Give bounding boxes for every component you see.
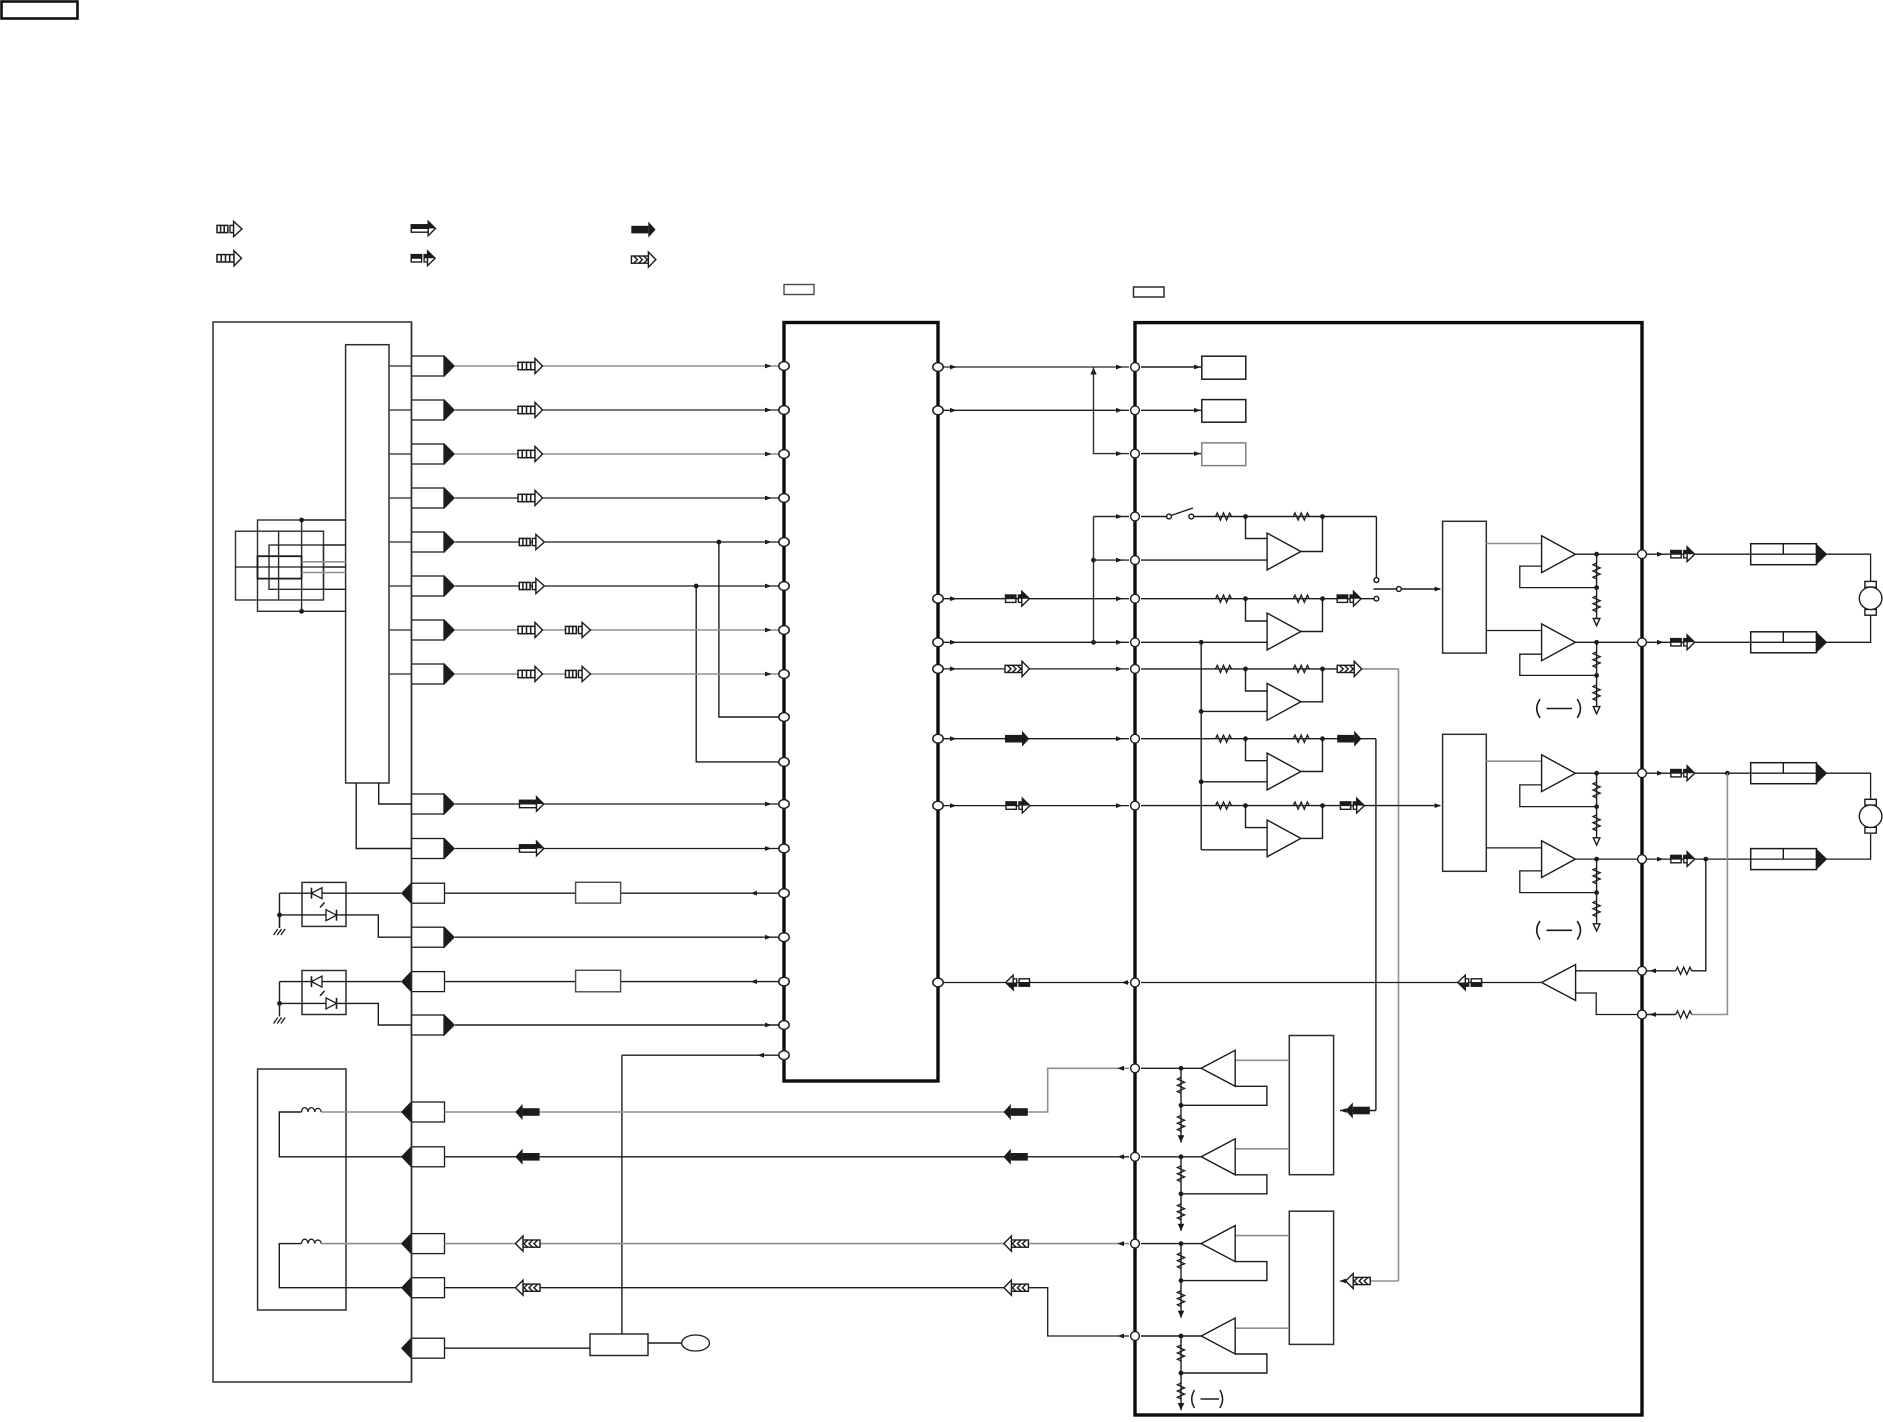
- pin in switch: [401, 1337, 445, 1359]
- pin out row10: [412, 838, 456, 860]
- volume pot 2: [1751, 632, 1828, 653]
- node stageA n2: [1320, 514, 1325, 519]
- wire rect4 to ampC: [1235, 1235, 1289, 1237]
- wire diode1 top: [280, 892, 402, 894]
- wire IC out r2: [943, 409, 1129, 411]
- arrowhead row3: [765, 452, 772, 457]
- wire stageC opamp input: [1246, 669, 1268, 691]
- arrow drive1 plus b: [515, 1104, 539, 1120]
- divider2 res a: [1593, 652, 1600, 668]
- servo block 4: [1289, 1211, 1333, 1344]
- arrowhead servo out: [757, 1053, 764, 1058]
- gray rail down: [1398, 669, 1400, 1281]
- IC pin R8: [933, 978, 943, 987]
- right block pin L6: [1131, 594, 1140, 603]
- wire row8 to IC: [455, 673, 779, 675]
- wire drv1 out2: [1486, 630, 1541, 632]
- arrow row5: [519, 534, 544, 549]
- arrowhead vol b: [1116, 596, 1123, 601]
- arrowhead laser row: [750, 891, 757, 896]
- arrow row4: [518, 490, 543, 505]
- resistor stageD r1: [1216, 735, 1232, 742]
- wire IC out blk: [943, 738, 1129, 740]
- arrow row8 a: [518, 666, 543, 681]
- wire monitor row: [455, 936, 779, 938]
- arrowhead drive1 plus: [1117, 1066, 1124, 1071]
- right block pin L10: [1131, 801, 1140, 810]
- right block pin R3: [1638, 769, 1647, 778]
- pickup mid wire: [236, 566, 324, 568]
- wire stageA drop: [1375, 517, 1377, 578]
- wire stageE opamp input: [1246, 806, 1268, 828]
- arrow row3: [518, 446, 543, 461]
- IC pin L7: [779, 626, 789, 635]
- divider4 line: [1596, 859, 1598, 924]
- indicator box 2: [1202, 400, 1246, 423]
- IC pin L12: [779, 844, 789, 853]
- arrowhead row1: [765, 364, 772, 369]
- pickup rect right: [269, 545, 324, 589]
- wire black rail to rect3: [1340, 1110, 1376, 1112]
- resistor stageE r1: [1216, 802, 1232, 809]
- wire stageA in: [1141, 516, 1167, 518]
- arrow drive2 plus: [1004, 1236, 1029, 1251]
- IC pin L5: [779, 538, 789, 547]
- wire chainB feedback: [1181, 1175, 1267, 1194]
- wire pickup 4: [324, 566, 346, 568]
- IC pin L2: [779, 406, 789, 415]
- right block pin L8: [1131, 665, 1140, 674]
- motor coil box: [258, 1069, 346, 1310]
- node ref branch: [1091, 640, 1096, 645]
- IC pin R7: [933, 801, 943, 810]
- bias rail: [1200, 642, 1202, 850]
- switch sensor box: [590, 1334, 648, 1356]
- wire out amp1 feedback: [1520, 566, 1597, 588]
- arrowhead row6: [765, 584, 772, 589]
- wire servo drop: [621, 1055, 623, 1334]
- divider3 res a: [1593, 782, 1600, 798]
- chainD arrow: [1178, 1403, 1185, 1410]
- arrow drive2 minus: [1004, 1280, 1029, 1295]
- wire sensor to bulb: [648, 1342, 682, 1344]
- wire servo out row: [622, 1054, 779, 1056]
- divider4 res b: [1593, 901, 1600, 917]
- arrow headphone fb: [1458, 975, 1482, 990]
- divider3 arrow: [1593, 838, 1600, 845]
- right block pin L7: [1131, 638, 1140, 647]
- pin out row8: [412, 663, 456, 685]
- node chainB: [1179, 1154, 1184, 1159]
- chainC line: [1180, 1244, 1182, 1318]
- wire gray rail to rect4: [1340, 1280, 1399, 1282]
- wire coil1 out: [321, 1111, 411, 1113]
- node row6 branch: [694, 584, 699, 589]
- left box right edge overdraw: [411, 322, 413, 1382]
- wire stageA chain: [1194, 516, 1377, 518]
- divider2 res b: [1593, 685, 1600, 701]
- arrowhead ch1 b: [1116, 667, 1123, 672]
- arrowhead ind2: [1194, 408, 1201, 413]
- pin out row1: [412, 355, 456, 377]
- chainB res1: [1177, 1166, 1184, 1182]
- wire stageB chain: [1141, 598, 1374, 600]
- arrowhead blk a: [950, 736, 957, 741]
- drive amp A: [1201, 1050, 1235, 1086]
- pin out row5: [412, 531, 456, 553]
- chainA arrow: [1178, 1135, 1185, 1142]
- wire ind2: [1141, 409, 1201, 411]
- right block pin L14: [1131, 1239, 1140, 1248]
- coil 2: [302, 1239, 322, 1243]
- wire connector bottom drop A: [379, 783, 412, 804]
- node out3: [1594, 771, 1599, 776]
- resistor stageA r2: [1293, 513, 1309, 520]
- right block pin L2: [1131, 406, 1140, 415]
- divider1 res a: [1593, 563, 1600, 579]
- right block pin L1: [1131, 363, 1140, 372]
- wire vol2 out: [1647, 641, 1751, 643]
- resistor stageE r2: [1293, 802, 1309, 809]
- arrow vol3: [1671, 766, 1695, 781]
- wire diode2 top: [280, 981, 402, 983]
- wire coil1 return: [279, 1112, 411, 1157]
- ground diode1: [274, 929, 286, 935]
- up arrow junction r1: [1090, 368, 1096, 375]
- arrowhead ind1: [1194, 365, 1201, 370]
- IC pin L1: [779, 362, 789, 371]
- wire riser stub r5: [1094, 559, 1130, 561]
- diode box 2: [302, 971, 346, 1015]
- wire drive1 minus: [445, 1156, 1130, 1158]
- ground diode2: [274, 1018, 286, 1024]
- arrowhead stub r5: [1116, 558, 1123, 563]
- wire connector bottom drop B: [356, 783, 411, 849]
- wire pickup 2: [324, 544, 346, 546]
- arrow rowB: [520, 841, 544, 855]
- IC pin L8: [779, 670, 789, 679]
- op-amp A: [1267, 533, 1301, 570]
- wire pickup 5: [302, 572, 346, 574]
- selector contact upper: [1374, 578, 1379, 583]
- wire row 642: [1141, 641, 1267, 643]
- arrow into rect3: [1346, 1103, 1370, 1119]
- chainD res2: [1177, 1383, 1184, 1399]
- node rail d: [1199, 779, 1204, 784]
- arrowhead rect3: [1340, 1108, 1347, 1113]
- diode box 1: [302, 882, 346, 926]
- wire headphone fb: [1141, 982, 1542, 984]
- wire rail to opC: [1201, 710, 1267, 712]
- chainA res2: [1177, 1115, 1184, 1131]
- wire stageA feedback: [1301, 517, 1323, 552]
- wire stageA opamp input: [1246, 517, 1268, 539]
- node stageD n2: [1320, 736, 1325, 741]
- wire stageD opamp input: [1246, 739, 1268, 761]
- chainD line: [1180, 1336, 1182, 1410]
- wire pot1 to motor: [1827, 554, 1871, 581]
- node out1: [1594, 552, 1599, 557]
- divider2 line: [1596, 642, 1598, 706]
- wire diode1 ground leg: [279, 893, 281, 927]
- wire row7 to IC: [455, 629, 779, 631]
- arrowhead blk b: [1116, 736, 1123, 741]
- switch blade stageA: [1171, 508, 1193, 516]
- wire row3 to IC: [455, 453, 779, 455]
- label paren lower: [1537, 921, 1581, 940]
- pin out monitor: [412, 926, 456, 948]
- divider3 res b: [1593, 815, 1600, 831]
- wire IC out ch1: [943, 668, 1129, 670]
- wire rowA to IC: [455, 803, 779, 805]
- wire riser stub r4: [1094, 516, 1130, 518]
- indicator box 3: [1202, 443, 1246, 466]
- wire stageC gray out: [1362, 668, 1399, 670]
- node diode1 ground: [277, 913, 282, 918]
- chainB res2: [1177, 1204, 1184, 1220]
- pin in laser: [401, 882, 445, 904]
- wire IC out aux: [943, 805, 1129, 807]
- wire connector row4: [389, 497, 412, 499]
- wire row 560: [1141, 559, 1267, 561]
- arrow into rect4: [1346, 1273, 1371, 1288]
- resistor fb B: [1676, 967, 1692, 974]
- node chainC: [1179, 1241, 1184, 1246]
- diode2 lower: [326, 998, 337, 1009]
- wire fb return: [943, 982, 1129, 984]
- arrowhead diode2 drive: [750, 979, 757, 984]
- wire ampB out: [1141, 1156, 1201, 1158]
- diode1 upper (laser): [312, 888, 323, 899]
- arrow vol: [1006, 591, 1030, 606]
- diode1 lower (photo): [326, 910, 337, 921]
- arrowhead rect4: [1339, 1279, 1346, 1284]
- node divider1: [1594, 585, 1599, 590]
- divider4 arrow: [1593, 924, 1600, 931]
- wire stageB opamp input: [1246, 599, 1268, 621]
- arrowhead IC r1 b: [1116, 365, 1123, 370]
- right block pin L15: [1131, 1332, 1140, 1341]
- op-amp B: [1267, 613, 1301, 650]
- motor 1: [1859, 581, 1882, 615]
- arrow row2: [518, 402, 543, 417]
- IC pin L13: [779, 889, 789, 898]
- right block pin R2: [1638, 638, 1647, 647]
- wire coil2 return: [279, 1244, 411, 1288]
- fb amp: [1542, 965, 1576, 1001]
- wire connector row1: [389, 365, 412, 367]
- pickup rect tall: [258, 520, 302, 611]
- driver block 2: [1443, 734, 1487, 871]
- drive amp C: [1201, 1226, 1235, 1262]
- wire fb loop B end: [1647, 970, 1676, 972]
- right block pin L11: [1131, 978, 1140, 987]
- label paren upper: [1537, 699, 1581, 718]
- pickup rect outer-left: [236, 531, 324, 600]
- divider4 res a: [1593, 868, 1600, 884]
- node row5 branch: [717, 540, 722, 545]
- wire selector to mixer: [1401, 588, 1440, 590]
- right block pin R1: [1638, 550, 1647, 559]
- node out4: [1594, 857, 1599, 862]
- pin in coil1 plus: [401, 1101, 445, 1123]
- wire stageB feedback: [1301, 599, 1323, 632]
- IC pin L10: [779, 758, 789, 767]
- wire out3: [1575, 772, 1637, 774]
- pin in diode2: [401, 971, 445, 993]
- bulb ellipse: [682, 1335, 710, 1351]
- pin in coil2 minus: [401, 1277, 445, 1299]
- wire out1: [1575, 553, 1637, 555]
- arrowhead IC r2 b: [1116, 408, 1123, 413]
- right block pin L13: [1131, 1152, 1140, 1161]
- wire ind1: [1141, 366, 1201, 368]
- wire stageE chain: [1141, 805, 1440, 807]
- arrow row6: [519, 578, 544, 593]
- right block pin L4: [1131, 512, 1140, 521]
- IC pin R2: [933, 406, 943, 415]
- chainC arrow: [1178, 1311, 1185, 1318]
- drive amp D: [1201, 1318, 1235, 1354]
- node stageC n2: [1320, 667, 1325, 672]
- divider3 line: [1596, 773, 1598, 838]
- node divider4: [1594, 890, 1599, 895]
- IC pin L14: [779, 933, 789, 942]
- node chainA: [1179, 1066, 1184, 1071]
- arrowhead fb A: [1649, 1012, 1656, 1017]
- legend arrow: striped detached-head: [217, 221, 242, 236]
- wire row1 to IC: [455, 365, 779, 367]
- wire fb loop A end: [1647, 1014, 1676, 1016]
- flex connector: [346, 345, 389, 783]
- wire connector row3: [389, 453, 412, 455]
- servo block 3: [1289, 1036, 1333, 1175]
- arrowhead ref b: [1116, 640, 1123, 645]
- volume pot 4: [1751, 849, 1828, 870]
- wire IC out ref: [943, 641, 1129, 643]
- wire out amp3 feedback: [1520, 785, 1597, 807]
- wire chainC feedback: [1181, 1262, 1267, 1281]
- wire pot3 to motor: [1827, 773, 1871, 800]
- chainB arrow: [1178, 1224, 1185, 1231]
- node stageB n2: [1320, 596, 1325, 601]
- wire pot4 to motor: [1827, 834, 1871, 859]
- drive amp B: [1201, 1139, 1235, 1175]
- coil 1: [302, 1108, 322, 1112]
- arrow fb return: [1006, 975, 1030, 990]
- arrowhead row8: [765, 672, 772, 677]
- arrowhead drive2 plus: [1117, 1241, 1124, 1246]
- IC pin L15: [779, 977, 789, 986]
- node stageE n1: [1243, 803, 1248, 808]
- op-amp E: [1267, 820, 1301, 857]
- label paren small: [1192, 1390, 1223, 1408]
- arrow vol2: [1671, 635, 1695, 650]
- arrow blk: [1005, 731, 1029, 747]
- wire row2 to IC: [455, 409, 779, 411]
- resistor box laser: [576, 882, 621, 903]
- IC pin L4: [779, 494, 789, 503]
- node stageE n2: [1320, 803, 1325, 808]
- arrow row1: [518, 358, 543, 373]
- arrowhead ref a: [950, 640, 957, 645]
- out amp 4: [1542, 841, 1576, 878]
- wire rect4 to ampD: [1235, 1327, 1289, 1329]
- chainA res1: [1177, 1077, 1184, 1093]
- pin out row9: [412, 793, 456, 815]
- arrowhead stageE: [1435, 803, 1442, 808]
- arrow ch1: [1005, 661, 1030, 676]
- IC pin L6: [779, 582, 789, 591]
- right block pin R6: [1638, 1010, 1647, 1019]
- wire row4 to IC: [455, 497, 779, 499]
- legend arrow: chevron: [631, 252, 656, 267]
- node stageB n1: [1243, 596, 1248, 601]
- node diode2 ground: [277, 1001, 282, 1006]
- label box above right block: [1134, 287, 1165, 297]
- wire pickup bottom: [302, 610, 346, 612]
- legend arrow: half-black open: [411, 221, 435, 235]
- IC pin L17: [779, 1051, 789, 1060]
- wire drive2 plus: [445, 1243, 1130, 1245]
- wire diode2 ground leg: [279, 982, 281, 1017]
- wire IC out vol: [943, 598, 1129, 600]
- wire connector row2: [389, 409, 412, 411]
- arrowhead vol1: [1657, 552, 1664, 557]
- arrow drive2 minus b: [516, 1280, 541, 1295]
- IC pin R5: [933, 665, 943, 674]
- node divider3: [1594, 804, 1599, 809]
- arrowhead aux a: [950, 803, 957, 808]
- left assembly outer box: [213, 322, 412, 1382]
- arrowhead vol2: [1657, 640, 1664, 645]
- wire stageC chain: [1141, 668, 1337, 670]
- wire chainA feedback: [1181, 1086, 1267, 1105]
- node pickup top: [299, 518, 304, 523]
- wire switch row: [445, 1347, 591, 1349]
- legend arrow: solid black: [631, 222, 655, 238]
- out amp 3: [1542, 755, 1576, 792]
- arrowhead fb return: [1121, 980, 1128, 985]
- wire rect3 to ampA: [1235, 1059, 1289, 1061]
- arrowhead ind3: [1194, 451, 1201, 456]
- node chainC mid: [1179, 1278, 1184, 1283]
- pin out row3: [412, 443, 456, 465]
- node chainA mid: [1179, 1103, 1184, 1108]
- wire pickup top: [302, 519, 346, 521]
- node rail c: [1199, 709, 1204, 714]
- IC pin L16: [779, 1021, 789, 1030]
- wire fb in bottom: [1576, 993, 1637, 1015]
- wire drive1 plus: [445, 1068, 1130, 1112]
- wire out2: [1575, 641, 1637, 643]
- divider1 res b: [1593, 596, 1600, 612]
- indicator box 1: [1202, 356, 1246, 379]
- arrow row7 a: [518, 622, 543, 637]
- right block pin R5: [1638, 966, 1647, 975]
- pin out row7: [412, 619, 456, 641]
- pin in coil1 minus: [401, 1146, 445, 1168]
- arrowhead row4: [765, 496, 772, 501]
- wire out amp4 feedback: [1520, 871, 1597, 893]
- wire fb loop A: [1692, 773, 1728, 1014]
- wire coil2 out: [321, 1243, 411, 1245]
- wire row6 to IC: [455, 585, 779, 587]
- resistor stageC r2: [1293, 665, 1309, 672]
- legend arrow: striped attached-head: [217, 251, 242, 266]
- motor 2: [1859, 799, 1882, 833]
- chainA line: [1180, 1068, 1182, 1142]
